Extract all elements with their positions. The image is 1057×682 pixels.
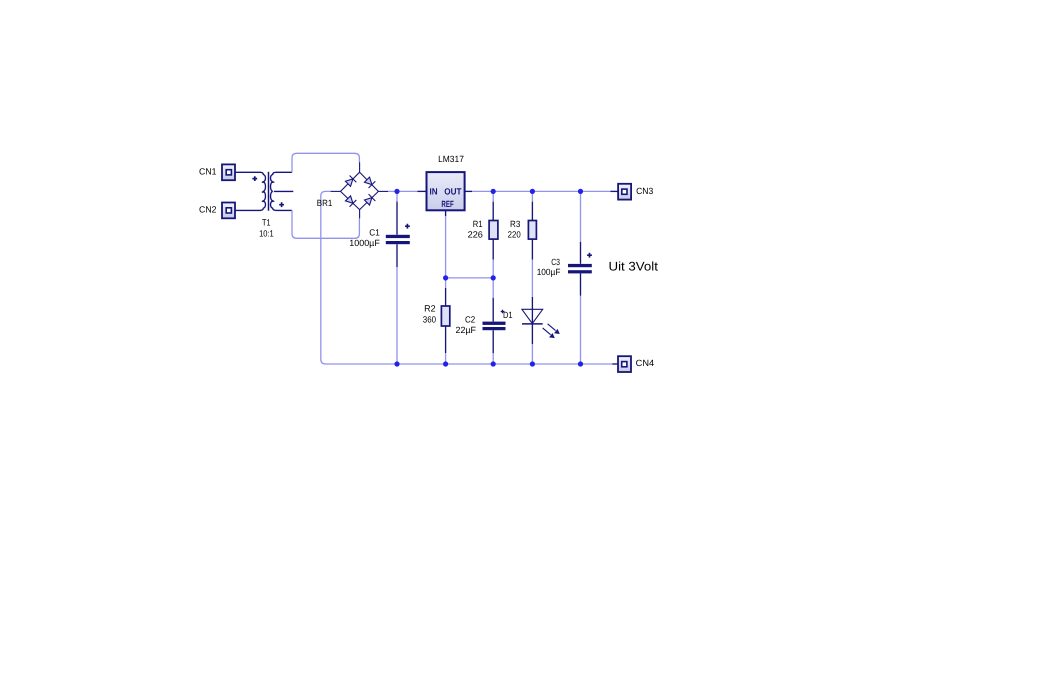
diode bottom-right xyxy=(364,194,376,206)
LED D1 triangle xyxy=(522,309,543,323)
capacitor C3 branch wires xyxy=(580,191,582,242)
svg-text:BR1: BR1 xyxy=(317,198,333,208)
bridge rectifier BR1 xyxy=(331,162,389,218)
resistor R2 body xyxy=(441,306,449,326)
wire CN1 to T1 primary top xyxy=(235,171,261,173)
LED D1 branch wires xyxy=(531,297,533,344)
svg-text:Uit 3Volt: Uit 3Volt xyxy=(609,259,659,273)
svg-text:R2: R2 xyxy=(424,304,436,314)
svg-text:D1: D1 xyxy=(503,310,513,320)
capacitor C1 branch wires xyxy=(396,191,398,201)
wire output rail to CN3 xyxy=(472,190,611,192)
svg-text:IN: IN xyxy=(430,186,438,196)
transformer T1 secondary polarity plus xyxy=(279,202,284,207)
capacitor C3 polarity plus xyxy=(587,253,592,258)
connector CN3 xyxy=(618,184,631,200)
svg-text:CN1: CN1 xyxy=(199,167,217,177)
transformer T1 primary winding xyxy=(260,172,265,210)
wire stub into CN3 xyxy=(611,190,619,192)
junction dots top rail xyxy=(394,189,583,194)
resistor R3 body xyxy=(528,221,536,240)
svg-text:R3: R3 xyxy=(510,219,520,229)
capacitor C2 branch wires xyxy=(492,278,494,298)
wire REF pin down to REF node xyxy=(445,216,447,278)
junction dots ground rail xyxy=(394,361,583,366)
wire REF node horizontal xyxy=(446,277,494,279)
transformer T1 core xyxy=(268,172,270,211)
wire routing top AC to bridge top xyxy=(292,153,359,172)
svg-text:CN3: CN3 xyxy=(636,186,653,196)
svg-text:OUT: OUT xyxy=(444,186,462,196)
diode top-left xyxy=(345,175,357,187)
capacitor C2 plates xyxy=(483,322,506,331)
transformer T1 secondary winding bottom half xyxy=(271,191,276,210)
svg-text:LM317: LM317 xyxy=(438,154,464,164)
svg-text:C2: C2 xyxy=(465,314,475,324)
connector CN4 xyxy=(618,356,631,372)
transformer T1 primary polarity plus xyxy=(252,176,257,181)
resistor R3 branch wires xyxy=(531,191,533,201)
wire CN2 to T1 primary bottom xyxy=(235,209,261,211)
connector CN2 xyxy=(222,203,235,219)
wire LM317 REF pin stub xyxy=(445,210,447,216)
svg-text:CN2: CN2 xyxy=(199,205,217,215)
wire secondary bottom to riser xyxy=(276,209,292,211)
svg-text:22µF: 22µF xyxy=(456,325,477,335)
connector CN1 xyxy=(222,164,235,180)
wire secondary center tap stub xyxy=(274,190,294,192)
transformer T1 secondary winding top half xyxy=(271,172,276,191)
svg-text:360: 360 xyxy=(423,315,436,325)
svg-text:10:1: 10:1 xyxy=(259,229,274,239)
resistor R2 branch wires xyxy=(445,278,447,288)
svg-text:1000µF: 1000µF xyxy=(349,238,380,248)
regulator U1 LM317 body xyxy=(427,172,465,210)
svg-text:100µF: 100µF xyxy=(537,267,561,277)
LED D1 cathode bar xyxy=(522,323,543,325)
wire stub into LM317 IN xyxy=(418,190,427,192)
wire bridge right to LM317 xyxy=(388,190,417,192)
wire routing bottom AC to bridge bottom xyxy=(292,210,359,238)
LED D1 polarity plus xyxy=(501,310,505,314)
capacitor C1 plates xyxy=(386,235,410,244)
wire stub out of LM317 OUT xyxy=(465,190,472,192)
svg-text:220: 220 xyxy=(508,229,521,239)
junction dots REF node xyxy=(443,275,496,280)
svg-text:C1: C1 xyxy=(369,228,380,238)
resistor R1 body xyxy=(489,221,498,240)
svg-text:T1: T1 xyxy=(262,218,271,228)
winding cusp ticks xyxy=(261,181,275,202)
diode bottom-left xyxy=(345,195,357,207)
svg-text:CN4: CN4 xyxy=(636,358,655,368)
diode top-right xyxy=(364,176,376,188)
capacitor C1 polarity plus xyxy=(405,224,410,229)
resistor R1 branch wires xyxy=(492,191,494,201)
LED D1 emission arrows xyxy=(543,324,559,338)
svg-text:REF: REF xyxy=(441,199,454,209)
svg-text:226: 226 xyxy=(468,229,483,239)
capacitor C3 plates xyxy=(568,264,592,274)
svg-text:C3: C3 xyxy=(551,257,560,267)
wire stub into CN4 xyxy=(612,363,618,365)
wire routing bridge left corner down to ground rail xyxy=(321,191,612,364)
svg-text:R1: R1 xyxy=(473,219,483,229)
wire secondary top to riser xyxy=(276,171,292,173)
